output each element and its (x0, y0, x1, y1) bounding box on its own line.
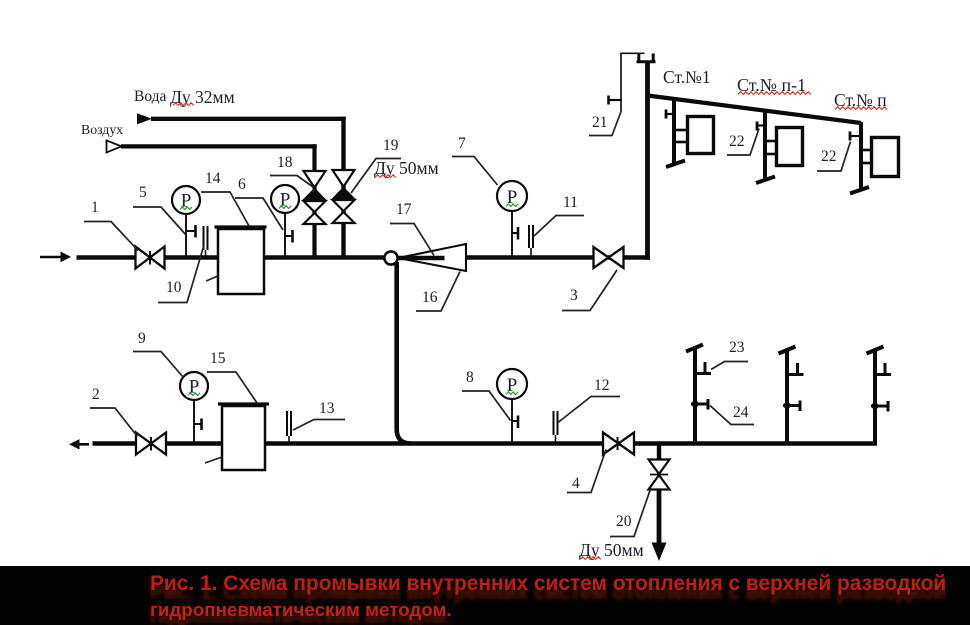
svg-text:Ст.№1: Ст.№1 (663, 67, 711, 87)
water feed arrow (filled) (137, 113, 152, 124)
return riser A (686, 345, 703, 444)
svg-text:16: 16 (422, 289, 438, 306)
node label Вода Ду 32мм (134, 87, 235, 107)
tank 14 (206, 227, 267, 294)
radiator St.n-1 (777, 128, 803, 166)
caption bar (0, 566, 970, 625)
svg-text:5: 5 (139, 184, 147, 201)
svg-text:2: 2 (92, 386, 100, 403)
svg-text:гидропневматическим методом.: гидропневматическим методом. (150, 599, 452, 620)
label 13 (293, 400, 345, 430)
label 22 (first) (727, 129, 759, 156)
valve 4 (603, 433, 634, 455)
wire: bottom main pipe (93, 441, 878, 445)
tap on riser C (871, 401, 888, 412)
label 5 (133, 184, 186, 235)
label 20 (610, 488, 651, 537)
riser St.n-1 (756, 111, 776, 183)
svg-text:Воздух: Воздух (81, 122, 123, 137)
vent cock 21 (609, 96, 623, 105)
svg-text:24: 24 (733, 404, 749, 421)
label 18 (270, 154, 313, 187)
svg-text:18: 18 (277, 154, 293, 171)
tap 24 on riser A (691, 399, 708, 410)
air column valve 18: gate valve (open hourglass) (304, 201, 326, 224)
svg-text:10: 10 (166, 279, 182, 296)
svg-text:12: 12 (594, 377, 610, 394)
return riser B (779, 347, 796, 444)
svg-text:23: 23 (729, 339, 745, 356)
wire: sloped upper distribution pipe (648, 96, 862, 124)
label 22 (second) (817, 142, 851, 172)
label 24 (710, 404, 754, 425)
wire: top main pipe (77, 255, 651, 259)
svg-text:15: 15 (210, 350, 226, 367)
probe 10 (double line) (204, 226, 208, 256)
label 19 (351, 137, 401, 193)
label 6 (235, 176, 283, 230)
svg-text:22: 22 (821, 148, 837, 165)
label 4 (567, 450, 606, 493)
air feed arrow (open) (107, 140, 122, 152)
label 12 (558, 377, 620, 423)
wire: downcomer from injector node with curve (397, 262, 411, 444)
wire: air feed line (Воздух) (121, 144, 317, 257)
injector cone 16/17 (398, 244, 466, 271)
svg-text:6: 6 (238, 176, 246, 193)
svg-text:7: 7 (458, 135, 466, 152)
label 2 (90, 386, 138, 437)
wire: main riser (645, 62, 650, 260)
air cock on riser C (877, 363, 892, 375)
label 9 (133, 330, 184, 378)
node label Ст.№ п-1 (737, 75, 811, 95)
value label Ду 50мм (bottom) (579, 540, 644, 560)
radiator St.1 (688, 117, 714, 154)
air cock on riser B (789, 363, 804, 375)
label 16 (416, 272, 460, 312)
valve 1 (136, 247, 165, 269)
inlet arrow top left (40, 252, 71, 263)
return riser C (867, 347, 884, 444)
label 8 (462, 369, 511, 421)
label 10 (158, 245, 204, 303)
svg-text:11: 11 (563, 194, 578, 211)
value label Ду 50мм (top) (374, 158, 439, 178)
svg-text:14: 14 (205, 170, 221, 187)
gauge 9 (180, 372, 208, 442)
outlet arrow bottom left (69, 439, 89, 449)
svg-text:19: 19 (383, 137, 399, 154)
drain valve 20 (649, 460, 670, 490)
svg-text:20: 20 (616, 513, 632, 530)
wire: drain branch (657, 444, 661, 462)
air cock 23 on riser A (697, 362, 712, 374)
air collector cup on riser top (637, 54, 656, 63)
svg-text:3: 3 (570, 287, 578, 304)
injector node circle (384, 251, 397, 264)
label 7 (452, 135, 498, 185)
label 17 (390, 201, 434, 256)
valve 3 (594, 247, 624, 268)
radiator St.n (872, 138, 899, 177)
label 21 (589, 112, 621, 136)
wire: water feed line (Вода) (151, 117, 346, 258)
label 3 (562, 270, 617, 311)
svg-text:1: 1 (91, 199, 99, 216)
valve 2 (136, 433, 166, 455)
riser St.n (850, 122, 871, 194)
svg-text:17: 17 (396, 201, 412, 218)
probe 12 (double line) (554, 411, 558, 442)
svg-text:9: 9 (138, 330, 146, 347)
svg-text:22: 22 (729, 133, 745, 150)
probe 13 (double line) (287, 411, 291, 442)
riser St.1 (666, 100, 687, 168)
gauge 7 (497, 181, 527, 256)
probe 11 (double line) (529, 225, 533, 256)
label 23 (711, 339, 748, 370)
label 1 (84, 199, 138, 251)
svg-text:13: 13 (319, 400, 335, 417)
label 11 (534, 194, 584, 236)
drain arrow (652, 543, 667, 562)
node label Ст.№ п (834, 90, 887, 110)
svg-text:8: 8 (466, 369, 474, 386)
tank 15 (205, 404, 269, 470)
label 15 (207, 350, 257, 403)
tap on riser B (783, 401, 800, 412)
gauge 8 (497, 369, 527, 442)
gauge 6 (271, 185, 299, 256)
svg-text:4: 4 (572, 475, 580, 492)
svg-text:Рис. 1. Схема промывки внутрен: Рис. 1. Схема промывки внутренних систем… (150, 572, 946, 595)
svg-text:Вода: Вода (134, 88, 167, 105)
water column valve 19: gate valve (open hourglass) (333, 200, 355, 223)
air column valves 18: check valve (open top / filled bottom) (304, 171, 326, 200)
label 14 (201, 170, 249, 226)
water column valves 19: check valve (open top / filled bottom) (333, 170, 355, 199)
gauge 5 (172, 186, 200, 256)
vent tube (thin L) (621, 53, 645, 111)
svg-text:21: 21 (592, 114, 608, 131)
